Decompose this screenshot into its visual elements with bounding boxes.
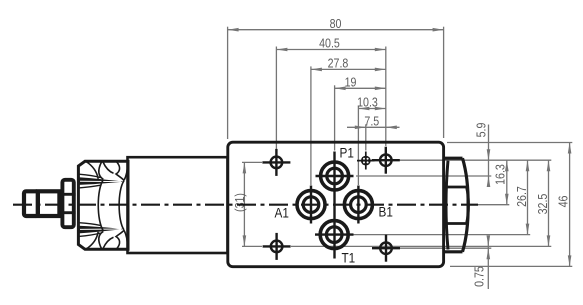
screw head — [24, 191, 38, 216]
cylinder — [128, 157, 228, 253]
extension line body-top right (y=142.5) — [447, 142, 572, 144]
stem — [38, 191, 60, 216]
extension line body-bottom right (y=266.4) — [450, 265, 572, 267]
dimension 0.75 (outside arrows) — [487, 236, 489, 289]
extension line B1 column (x=358.4) — [357, 106, 359, 186]
bottom dart — [79, 226, 124, 234]
knurl pattern — [79, 162, 128, 250]
svg-text:B1: B1 — [379, 203, 393, 219]
shared vertical centerline P1/T1 — [333, 152, 335, 259]
svg-text:P1: P1 — [340, 145, 354, 161]
port P1 — [316, 162, 354, 190]
mounting hole BL — [263, 233, 291, 260]
extension line P1 row right (y=176) — [356, 175, 491, 177]
valve body — [228, 142, 444, 267]
dimension 46 — [569, 143, 571, 267]
svg-text:32.5: 32.5 — [535, 193, 550, 214]
svg-text:0.75: 0.75 — [472, 266, 487, 287]
extension line (31) top (y=162.4) — [242, 161, 262, 163]
top band arcs — [86, 162, 98, 179]
dimension 16.3 — [506, 160, 508, 205]
port A1 — [297, 186, 325, 224]
extension line body-right (x=443.6) — [443, 27, 445, 138]
svg-text:(31): (31) — [232, 193, 247, 212]
svg-text:16.3: 16.3 — [493, 164, 508, 185]
svg-text:7.5: 7.5 — [364, 113, 379, 128]
dimension (31) — [243, 162, 245, 246]
centerline axis — [13, 204, 478, 206]
port B1 — [344, 186, 372, 224]
dimension 10.3 — [358, 108, 385, 110]
extension line bottom-left-hole row (y=246.4) — [291, 245, 551, 247]
middle band arcs — [98, 180, 103, 232]
locknut — [62, 180, 73, 227]
extension line body-left (x=227.6) — [227, 27, 229, 139]
extension line (31) bottom (y=246.4) — [242, 245, 262, 247]
svg-text:5.9: 5.9 — [473, 122, 488, 137]
dimension 7.5 (outside arrows) — [347, 126, 400, 128]
svg-text:46: 46 — [556, 195, 571, 207]
dimension 27.8 — [311, 68, 386, 70]
dimension 40.5 — [276, 49, 385, 51]
svg-text:10.3: 10.3 — [357, 95, 378, 110]
extension line P1 column (x=334.6) — [334, 85, 336, 150]
knurled knob outline — [78, 161, 128, 249]
dimension 80 — [228, 29, 444, 31]
mounting hole TR — [372, 147, 400, 174]
svg-text:40.5: 40.5 — [319, 36, 340, 51]
extension line T1 row right (y=234.6) — [352, 234, 530, 236]
dimension 5.9 — [488, 125, 490, 187]
mounting hole TL — [262, 149, 290, 176]
dimension 26.7 — [527, 160, 529, 234]
extension line hole-row right (y=160.2) — [399, 159, 551, 161]
svg-text:19: 19 — [345, 74, 357, 89]
svg-text:26.7: 26.7 — [514, 186, 529, 207]
extension line bottom-right-hole row (y=248.2) — [400, 247, 491, 249]
port T1 — [315, 221, 354, 249]
dimension 32.5 — [548, 160, 550, 246]
extension line mounting-hole-left column (x=276.4) — [275, 47, 277, 150]
top dart — [79, 177, 124, 185]
extension line mounting-hole-right column (x=385.8) — [385, 47, 387, 147]
svg-text:A1: A1 — [275, 204, 289, 220]
svg-text:T1: T1 — [342, 250, 356, 266]
mounting hole BR — [372, 235, 400, 262]
svg-text:27.8: 27.8 — [328, 56, 349, 71]
svg-text:80: 80 — [330, 16, 342, 31]
extension line A1 column (x=310.9) — [310, 66, 312, 185]
bottom band arcs — [86, 232, 98, 249]
dimension 19 — [335, 87, 386, 89]
extension line axis right (y=204.7) — [478, 204, 509, 206]
hex end cap — [444, 158, 469, 252]
orifice hole — [357, 152, 375, 170]
extension line orifice column (x=365.8) — [365, 124, 367, 150]
